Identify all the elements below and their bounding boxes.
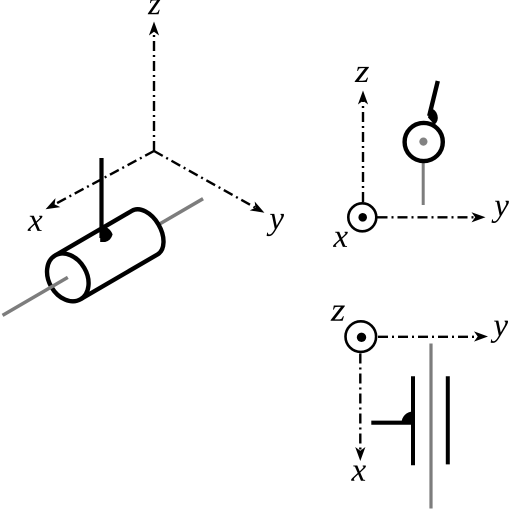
x axis label (lower right view)	[351, 466, 366, 481]
cylinder near end face (3D view)	[39, 246, 97, 309]
wire arrowhead blob (upper right view)	[428, 108, 438, 125]
gray axis line (lower right view)	[429, 344, 432, 509]
gray axis line right segment (3D view)	[158, 199, 203, 225]
gray line below cylinder circle (upper right view)	[422, 163, 425, 205]
y axis (upper right view)	[378, 212, 486, 222]
z axis (upper right view)	[358, 91, 368, 203]
origin circle, z out of page (lower right view)	[346, 321, 377, 352]
z axis label (upper right view)	[355, 67, 369, 82]
wire (lower right view)	[371, 421, 413, 425]
x axis label (upper right view)	[333, 232, 348, 247]
y axis label (upper right view)	[492, 201, 509, 223]
y axis label (lower right view)	[491, 321, 508, 343]
y axis (3D view)	[154, 151, 267, 217]
y axis label (3D view)	[267, 214, 284, 236]
y axis (lower right view)	[378, 331, 488, 341]
cylinder seen end-on (upper right view)	[405, 123, 443, 161]
gray axis line left segment (3D view)	[3, 277, 68, 315]
cylinder left side silhouette (lower right view)	[411, 376, 415, 465]
wire arrowhead blob (lower right view)	[402, 412, 414, 424]
cylinder right side silhouette (lower right view)	[446, 376, 450, 464]
z axis label (3D view)	[148, 0, 161, 14]
origin dot (upper right view)	[358, 213, 367, 222]
gray axis dot, axis end-on (upper right view)	[419, 138, 427, 146]
cylinder body (3D view)	[55, 203, 171, 300]
x axis (lower right view)	[355, 354, 365, 462]
origin circle, x out of page (upper right view)	[348, 203, 376, 231]
x axis (3D view)	[43, 151, 154, 214]
x axis label (3D view)	[28, 216, 43, 231]
origin dot (lower right view)	[357, 333, 366, 342]
wire (3D view)	[99, 158, 103, 238]
z axis (3D view)	[149, 22, 159, 152]
z axis label (lower right view)	[331, 306, 345, 321]
wire arrowhead blob (3D view)	[100, 226, 112, 242]
wire (upper right view)	[429, 81, 438, 116]
